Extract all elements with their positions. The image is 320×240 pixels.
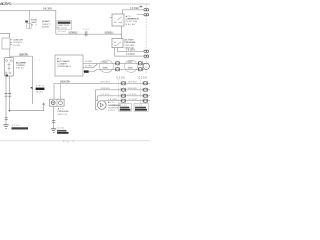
relay inner marks: [114, 17, 122, 23]
ground G2: [51, 129, 56, 133]
svg-text:COIL: COIL: [108, 110, 116, 112]
bottom border line: [0, 140, 150, 142]
right dashed column: [145, 5, 147, 74]
oval 2 ticks: [128, 62, 133, 68]
svg-text:C100: C100: [117, 78, 126, 80]
hot feed wire: [0, 9, 56, 11]
svg-text:0.8 DK GRN: 0.8 DK GRN: [128, 88, 137, 90]
svg-text:RELAY: RELAY: [126, 23, 137, 26]
svg-text:A/C: A/C: [126, 15, 131, 18]
svg-text:0.8 RED: 0.8 RED: [130, 8, 139, 10]
column connector d: [144, 55, 146, 57]
svg-text:C2: C2: [144, 57, 150, 59]
svg-text:SEE: SEE: [36, 85, 45, 87]
end circle node: [143, 63, 149, 69]
svg-text:A/C: A/C: [108, 101, 114, 104]
svg-text:A/C: A/C: [58, 108, 64, 111]
fuse value tick: [25, 21, 28, 23]
svg-text:0.5 GRY: 0.5 GRY: [85, 66, 93, 68]
svg-text:0.8 BLK: 0.8 BLK: [101, 94, 111, 96]
branch arrow: [42, 102, 45, 104]
feeder wire 2: [83, 67, 94, 69]
instrument junction box B: [57, 21, 72, 30]
svg-text:0.8 GRN: 0.8 GRN: [126, 49, 135, 51]
splice node: [6, 75, 8, 77]
svg-text:0.8 DK GRN: 0.8 DK GRN: [101, 88, 110, 90]
svg-text:A/C CMPRSR: A/C CMPRSR: [16, 61, 26, 64]
svg-text:0.8 DK BLU: 0.8 DK BLU: [105, 31, 114, 34]
ground G100: [3, 125, 8, 129]
fuse terminal square: [27, 24, 32, 29]
fuse drop wire: [29, 10, 31, 28]
wire tick: [52, 121, 55, 123]
svg-text:0.8 GRN: 0.8 GRN: [128, 99, 137, 101]
relay contacts: [6, 60, 8, 62]
lower tick: [5, 118, 8, 120]
fan wire 4: [100, 100, 150, 102]
row1 connectors: [121, 81, 126, 85]
svg-text:0.8 ORN: 0.8 ORN: [13, 45, 20, 47]
drop arrow tick: [30, 87, 32, 89]
svg-text:0.8 LT BLU: 0.8 LT BLU: [101, 82, 110, 84]
svg-text:0.8 BLK: 0.8 BLK: [126, 54, 135, 56]
svg-text:PAGE 2: PAGE 2: [36, 91, 44, 94]
feeder wire 1: [83, 62, 94, 64]
relay ground wire: [5, 76, 7, 125]
svg-text:FUSE: FUSE: [31, 19, 38, 21]
harness oval 1: [100, 60, 114, 73]
horizontal run y34: [56, 33, 122, 35]
svg-text:0.8 GRN: 0.8 GRN: [108, 99, 117, 101]
relay coil bar: [8, 63, 11, 71]
svg-text:RELAY: RELAY: [16, 67, 25, 70]
row3 connectors: [121, 94, 126, 98]
svg-text:B2: B2: [32, 24, 38, 26]
svg-text:A/C SYS: A/C SYS: [0, 1, 11, 6]
high pressure cutoff switch S1: [112, 39, 123, 48]
ground branch wire: [10, 105, 44, 111]
anti-theft relay U1: [5, 58, 14, 77]
relay to switch wire: [121, 26, 123, 39]
second right wire: [137, 14, 144, 16]
oval 1 ticks: [103, 62, 108, 68]
pressure switch feed wire: [54, 82, 150, 84]
svg-text:ALARM: ALARM: [42, 25, 49, 28]
switch inner marks: [114, 42, 121, 46]
merge bracket: [94, 63, 98, 71]
svg-text:0.8 DK BLU: 0.8 DK BLU: [69, 31, 78, 34]
svg-text:0.8 DK GRN: 0.8 DK GRN: [19, 53, 28, 56]
relay stub: [109, 17, 112, 19]
connector column 2: [140, 79, 142, 104]
svg-text:W/ ANTI: W/ ANTI: [42, 20, 50, 23]
switch ground wire: [53, 106, 55, 128]
relay feed from top: [121, 10, 123, 14]
connector column 1: [118, 79, 120, 104]
box B header: [58, 22, 71, 24]
harness wire lower: [97, 68, 144, 70]
fan wire 3: [98, 96, 150, 101]
harness wire upper: [97, 62, 144, 64]
bold label bar: [36, 88, 45, 90]
inline connector ticks: [85, 31, 87, 36]
feeder wire 3: [83, 71, 94, 73]
hot tick: [140, 6, 143, 7]
connector id box 1: [119, 104, 132, 112]
svg-text:SWITCH: SWITCH: [58, 114, 67, 116]
dual pressure switch S2: [50, 99, 65, 106]
switch drop 2: [60, 83, 62, 99]
branch wire: [10, 55, 33, 57]
svg-text:0.8 LT BLU: 0.8 LT BLU: [128, 82, 137, 84]
switch drop 1: [53, 83, 55, 99]
svg-text:C201: C201: [83, 29, 90, 31]
harness oval 2: [125, 60, 138, 72]
svg-text:0.8 DK GRN: 0.8 DK GRN: [60, 80, 70, 83]
inline connector pair 1: [116, 61, 120, 71]
branch drop wire: [32, 56, 34, 104]
wire block A to relay: [9, 49, 11, 58]
compressor bracket: [96, 100, 98, 109]
svg-text:BLOCK: BLOCK: [58, 27, 68, 29]
row2 connectors: [121, 88, 126, 92]
junction block pins: [10, 40, 12, 45]
svg-text:G100: G100: [12, 125, 21, 127]
connector ticks: [5, 93, 11, 96]
junction block A: [2, 38, 10, 49]
feeder 3 dark tag: [84, 70, 89, 72]
column connector c: [144, 50, 146, 52]
svg-text:CONTROL (ACC): CONTROL (ACC): [57, 65, 71, 68]
svg-text:0.8 ORN: 0.8 ORN: [43, 6, 52, 10]
column connector b: [144, 14, 146, 16]
inline connector pair 2: [138, 61, 142, 71]
top right wire: [122, 9, 144, 11]
svg-text:G200: G200: [57, 128, 65, 130]
svg-text:AUTOMATIC: AUTOMATIC: [57, 60, 70, 63]
row4 connectors: [121, 99, 126, 103]
switch out wire 1: [118, 48, 144, 52]
switch out wire 2: [115, 48, 144, 57]
control head box: [55, 55, 83, 76]
svg-text:0.5 TAN: 0.5 TAN: [85, 60, 92, 63]
connector id box 2: [134, 104, 149, 112]
column connector a: [144, 9, 146, 11]
top border line: [11, 3, 150, 5]
main drop wire: [55, 10, 57, 34]
svg-text:A/C HIGH: A/C HIGH: [124, 39, 133, 42]
svg-text:CLIMATE: CLIMATE: [57, 63, 68, 66]
compressor clutch relay K1: [112, 14, 124, 26]
relay output wire: [9, 76, 11, 111]
fan wire 2: [96, 90, 150, 101]
junction dot: [9, 110, 11, 112]
svg-text:C200: C200: [139, 78, 148, 80]
svg-text:0.8 BLK: 0.8 BLK: [128, 94, 138, 96]
compressor clutch M1: [98, 101, 107, 110]
feed wire from left edge: [0, 34, 10, 39]
svg-text:W/O ALM: W/O ALM: [58, 30, 66, 33]
